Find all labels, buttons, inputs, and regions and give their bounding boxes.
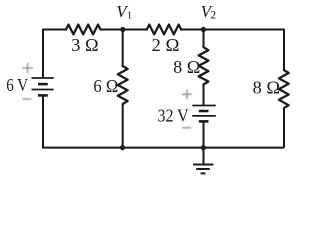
svg-text:2 Ω: 2 Ω	[152, 35, 180, 55]
svg-text:8 Ω: 8 Ω	[173, 57, 200, 77]
svg-text:8 Ω: 8 Ω	[253, 77, 281, 97]
svg-text:1: 1	[127, 10, 133, 22]
svg-text:6 Ω: 6 Ω	[93, 76, 118, 96]
svg-text:2: 2	[210, 10, 216, 22]
svg-text:3 Ω: 3 Ω	[71, 35, 98, 55]
svg-text:6 V: 6 V	[6, 75, 28, 95]
svg-text:32 V: 32 V	[158, 106, 189, 126]
